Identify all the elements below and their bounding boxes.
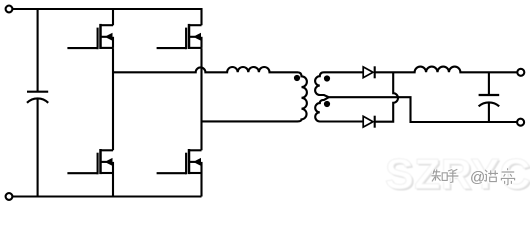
svg-text:@: @ (470, 169, 485, 186)
